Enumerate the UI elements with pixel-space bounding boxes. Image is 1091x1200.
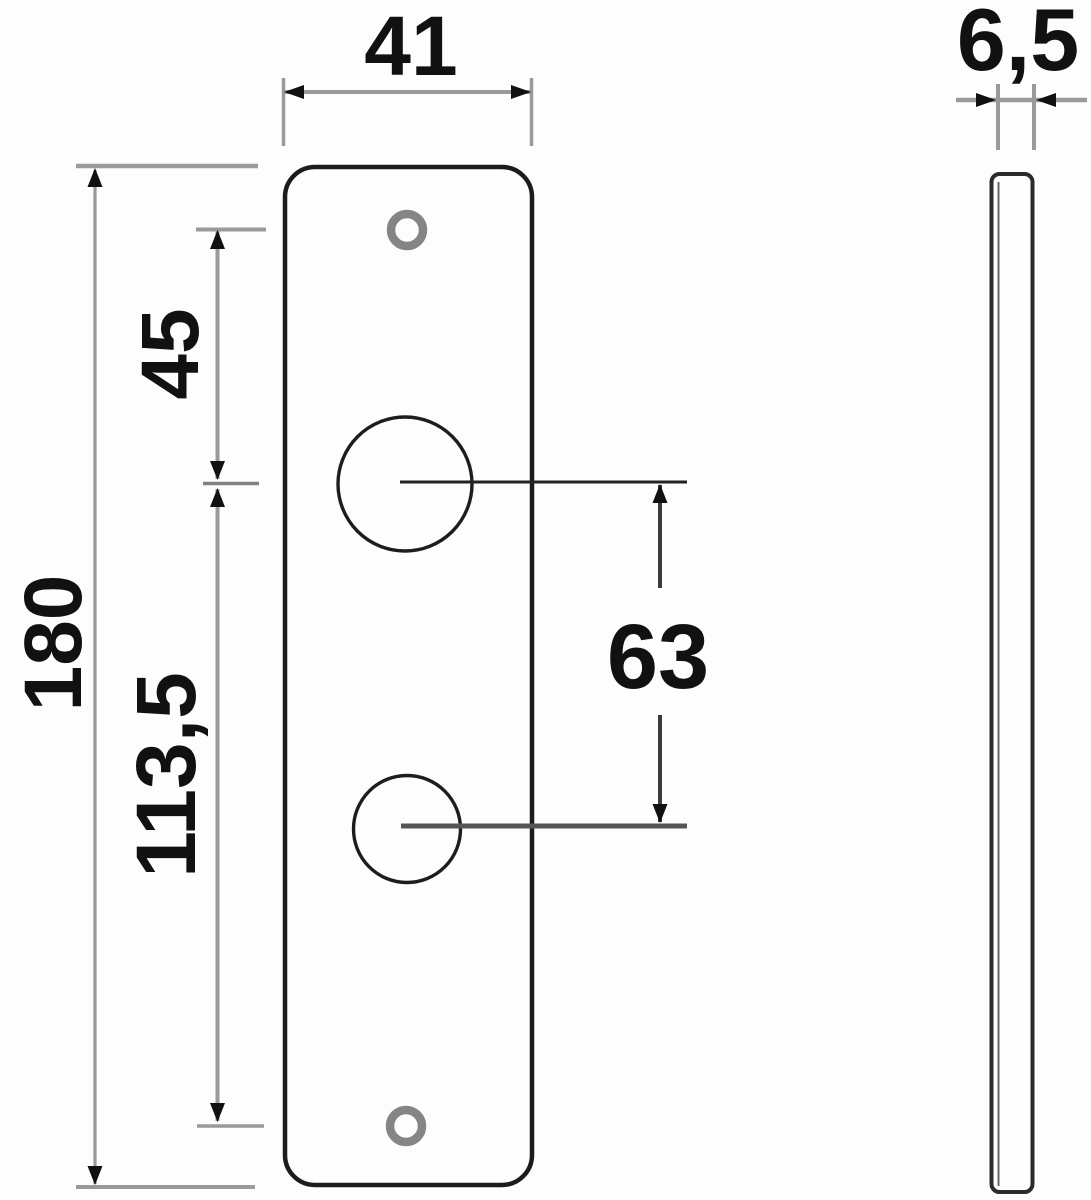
- dimension 113,5: dimension line: [216, 489, 220, 1121]
- dimension 63: top arrowhead: [653, 484, 668, 503]
- dimension 6,5: dimension line: [956, 98, 1087, 103]
- dimension 45: top extension line: [196, 228, 266, 232]
- dimension 113,5: bottom extension line at screw centre: [197, 1124, 264, 1128]
- dimension 41: left arrowhead: [284, 85, 304, 99]
- dimension 113,5: bottom arrowhead: [210, 1103, 225, 1122]
- dimension 41: extension line right: [530, 78, 534, 146]
- dimension 63: dimension line lower segment: [658, 715, 662, 822]
- dimension 6,5: right extension line: [1032, 84, 1036, 150]
- plate side view inner edge line: [998, 182, 1000, 1186]
- svg-text:63: 63: [607, 606, 709, 708]
- svg-text:6,5: 6,5: [957, 0, 1079, 89]
- shared extension line at handle hole centre: [203, 482, 259, 486]
- svg-text:45: 45: [125, 308, 216, 399]
- svg-text:113,5: 113,5: [119, 672, 213, 878]
- dimension 45: bottom arrowhead: [210, 461, 225, 480]
- dimension 63: bottom arrowhead: [653, 804, 668, 823]
- dimension 113,5: top arrowhead: [210, 488, 225, 507]
- dimension 6,5: left extension line: [996, 84, 1000, 150]
- dimension 180: top extension line: [76, 164, 258, 169]
- leader line from handle hole centre: [400, 481, 687, 484]
- dimension 180: bottom arrowhead: [88, 1166, 103, 1185]
- dimension 41: right arrowhead: [511, 85, 531, 99]
- top screw hole: [391, 214, 423, 246]
- dimension 45: top arrowhead: [210, 230, 225, 249]
- key/lock hole (small circle): [354, 776, 461, 883]
- dimension 63: dimension line upper segment: [658, 485, 662, 588]
- bottom screw hole: [390, 1110, 422, 1142]
- dimension 45: dimension line: [216, 231, 220, 479]
- dimension 180: dimension line: [93, 170, 96, 1184]
- dimension 41: dimension line: [284, 90, 531, 94]
- plate side view outline: [992, 174, 1033, 1192]
- svg-text:180: 180: [8, 575, 99, 712]
- dimension 180: bottom extension line: [76, 1185, 255, 1189]
- dimension 6,5: left arrowhead (pointing right): [976, 93, 996, 107]
- svg-text:41: 41: [364, 0, 457, 93]
- dimension 180: top arrowhead: [88, 168, 103, 187]
- handle hole (large circle): [338, 417, 472, 551]
- dimension 6,5: right arrowhead (pointing left): [1036, 93, 1056, 107]
- dimension 41: extension line left: [282, 78, 286, 146]
- leader line from lock hole centre: [401, 824, 687, 829]
- plate front view outline: [285, 167, 532, 1185]
